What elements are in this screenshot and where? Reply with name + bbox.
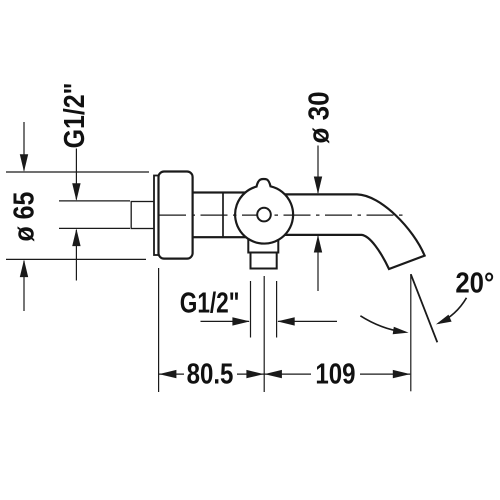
svg-text:20°: 20°: [455, 267, 494, 298]
svg-text:G1/2": G1/2": [59, 83, 91, 149]
svg-text:ø 65: ø 65: [8, 192, 40, 242]
svg-text:ø 30: ø 30: [303, 91, 335, 143]
svg-text:G1/2": G1/2": [180, 288, 240, 319]
svg-text:109: 109: [315, 358, 355, 390]
svg-text:80.5: 80.5: [187, 358, 234, 390]
